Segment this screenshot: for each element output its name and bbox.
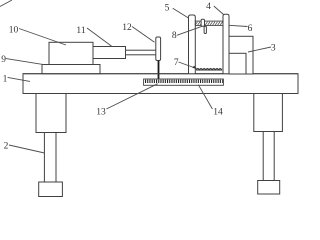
leader 3 <box>248 47 271 52</box>
screw head 8 <box>201 19 204 26</box>
svg-text:14: 14 <box>213 108 223 118</box>
leader 6 <box>229 25 248 26</box>
svg-text:8: 8 <box>172 31 177 41</box>
left leg foot <box>39 182 63 197</box>
ruler teeth <box>145 80 223 83</box>
piston rod <box>126 50 157 55</box>
left leg upper <box>36 94 66 133</box>
leader 9 <box>6 59 44 65</box>
table top 1 <box>23 74 298 94</box>
leader 8 <box>177 26 202 35</box>
leader 2 <box>9 145 45 153</box>
table face lines restored <box>23 73 298 75</box>
svg-text:10: 10 <box>9 26 19 36</box>
leader 10 <box>19 29 66 46</box>
right leg shaft <box>263 132 274 181</box>
pedestal 9 <box>42 65 100 74</box>
left leg shaft 2 <box>44 133 56 183</box>
leader 5 <box>173 8 189 18</box>
svg-text:11: 11 <box>76 26 85 36</box>
screw shaft <box>204 26 206 33</box>
svg-text:12: 12 <box>122 23 132 33</box>
right leg upper <box>254 94 283 132</box>
svg-text:6: 6 <box>248 24 253 34</box>
corner line <box>0 0 12 7</box>
cylinder 11 <box>93 47 126 59</box>
leader 7 <box>179 62 197 69</box>
leader 13 <box>106 84 157 109</box>
left post 5 <box>189 15 196 74</box>
leader 14 <box>198 85 212 109</box>
push plate 12 <box>156 37 161 61</box>
leader 12 <box>132 27 155 43</box>
svg-text:5: 5 <box>165 4 170 14</box>
leader 4 <box>214 6 224 15</box>
leader 1 <box>8 77 30 81</box>
right leg foot <box>258 181 280 195</box>
leader 11 <box>87 28 112 47</box>
svg-text:9: 9 <box>1 55 6 65</box>
svg-text:3: 3 <box>271 44 276 54</box>
blade under plate <box>158 61 160 80</box>
bracket 3 inner <box>229 53 246 74</box>
svg-text:4: 4 <box>206 2 211 12</box>
svg-text:13: 13 <box>96 108 106 118</box>
hatched bar 6 <box>195 21 223 25</box>
svg-text:7: 7 <box>174 58 179 68</box>
svg-text:2: 2 <box>4 142 9 152</box>
svg-text:1: 1 <box>3 75 8 85</box>
ruler strip 13 <box>144 79 224 85</box>
serrated blade 7 <box>196 69 222 70</box>
bracket 3 outer <box>229 36 253 74</box>
right post 4 <box>223 14 229 74</box>
motor box 10 <box>49 42 93 64</box>
